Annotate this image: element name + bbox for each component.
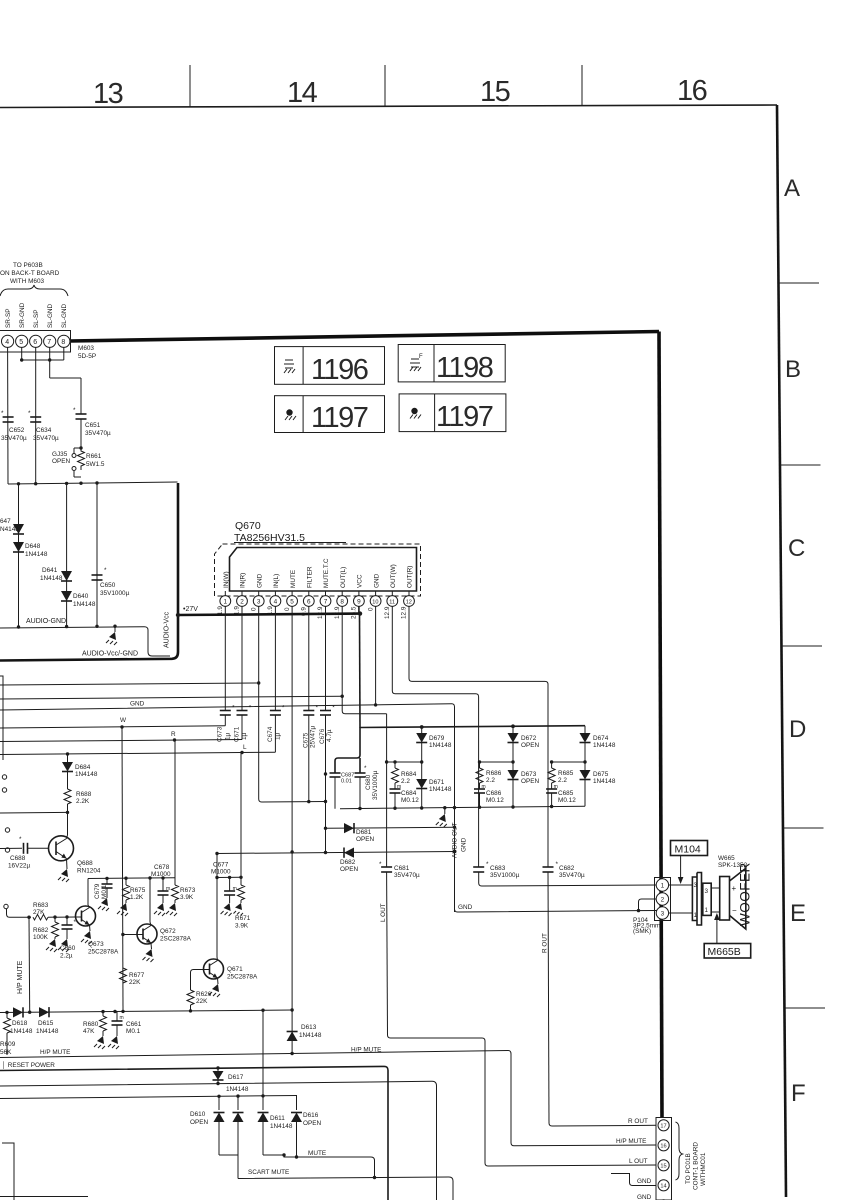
svg-text:3: 3 xyxy=(705,888,709,895)
resistor R680 47K xyxy=(102,1012,104,1016)
connector M603 pin 4 xyxy=(2,335,14,347)
capacitor C651 xyxy=(76,413,87,415)
pin 3 xyxy=(258,591,260,596)
svg-text:C634: C634 xyxy=(36,427,52,434)
resistor R683 27K xyxy=(33,914,48,920)
svg-text:H/P MUTE: H/P MUTE xyxy=(17,960,24,994)
grid tick right D/E xyxy=(783,827,824,829)
wire GND audio out to P104 pin3 xyxy=(455,909,658,912)
svg-text:12.9: 12.9 xyxy=(317,606,324,619)
svg-text:C671: C671 xyxy=(234,726,241,742)
svg-text:GND: GND xyxy=(461,837,468,852)
svg-text:m: m xyxy=(166,886,170,892)
svg-text:1N4148: 1N4148 xyxy=(299,1032,322,1039)
svg-text:35V470µ: 35V470µ xyxy=(394,872,420,879)
svg-text:TO P603B: TO P603B xyxy=(13,262,43,269)
pin voltage labels (rotated) xyxy=(217,606,408,619)
svg-text:R609: R609 xyxy=(0,1041,16,1048)
svg-text:D610: D610 xyxy=(190,1111,206,1118)
diode D672 OPEN xyxy=(512,726,514,733)
connector pin 14 xyxy=(658,1180,669,1191)
box 1197 (left) xyxy=(275,396,385,434)
svg-text:27K: 27K xyxy=(33,909,45,916)
svg-text:0: 0 xyxy=(367,607,374,611)
svg-text:7: 7 xyxy=(324,599,328,606)
wire H/P MUTE bus xyxy=(0,1051,508,1058)
box 1196 xyxy=(275,347,385,386)
chassis ground on rail xyxy=(444,808,446,814)
svg-text:B: B xyxy=(785,356,801,383)
diode D673 OPEN xyxy=(508,770,519,780)
transistor Q672 2SC2878A xyxy=(123,934,138,936)
svg-text:OUT(R): OUT(R) xyxy=(407,566,414,588)
pin 9 xyxy=(358,591,360,596)
wire mute column x=263 down to diode row xyxy=(262,1010,264,1110)
svg-text:1197: 1197 xyxy=(436,401,493,433)
diode D675 1N4148 xyxy=(580,770,591,780)
svg-text:R680: R680 xyxy=(83,1021,99,1028)
left box edge vertical xyxy=(0,676,3,760)
svg-text:647: 647 xyxy=(0,518,11,525)
svg-text:A: A xyxy=(784,175,800,202)
resistor R673 3.9K xyxy=(174,740,176,885)
svg-text:C683: C683 xyxy=(490,865,506,872)
svg-text:L: L xyxy=(243,744,247,751)
svg-text:3: 3 xyxy=(694,882,698,889)
board outline right thick line xyxy=(659,332,662,1119)
svg-text:1N4148: 1N4148 xyxy=(270,1123,293,1130)
svg-text:Q671: Q671 xyxy=(227,966,243,973)
svg-text:8: 8 xyxy=(61,339,65,346)
svg-text:C674: C674 xyxy=(267,726,274,742)
wire pin3 GND down then right xyxy=(259,606,326,802)
grid tick top 14/15 xyxy=(384,65,386,106)
svg-text:Q672: Q672 xyxy=(160,928,176,935)
svg-text:WOOFER: WOOFER xyxy=(738,862,753,926)
wire diode bottom rail segB xyxy=(263,1154,284,1156)
svg-text:SCART MUTE: SCART MUTE xyxy=(248,1169,289,1176)
transistor Q671 2SC2878A xyxy=(204,959,224,979)
svg-text:│ RESET POWER: │ RESET POWER xyxy=(2,1061,55,1069)
svg-text:D617: D617 xyxy=(228,1074,244,1081)
label M104 box xyxy=(671,841,708,856)
svg-text:D616: D616 xyxy=(303,1112,319,1119)
svg-text:1: 1 xyxy=(661,883,665,890)
resistor R671 3.9K xyxy=(240,753,242,886)
svg-text:IN(L): IN(L) xyxy=(273,574,280,588)
wire L OUT staircase to pin 15 xyxy=(388,1035,658,1166)
svg-text:D641: D641 xyxy=(42,567,58,574)
wire pin7 with capacitor C676 xyxy=(325,606,327,710)
connector brace xyxy=(676,1122,683,1180)
chassis ground symbol on AUDIO-GND xyxy=(114,626,116,632)
wire bus down at x=66.6 xyxy=(66,483,68,627)
Q671 emitter ground xyxy=(217,978,220,984)
svg-text:•27V: •27V xyxy=(183,606,198,613)
svg-text:C673: C673 xyxy=(217,726,224,742)
svg-text:R682: R682 xyxy=(33,927,49,934)
svg-text:OPEN: OPEN xyxy=(340,866,358,873)
wire pin6 with capacitor C675 xyxy=(308,606,310,710)
svg-text:4: 4 xyxy=(5,339,9,346)
svg-text:1: 1 xyxy=(224,599,228,606)
svg-text:GND: GND xyxy=(637,1194,652,1200)
svg-text:M1000: M1000 xyxy=(211,869,231,876)
svg-text:GND: GND xyxy=(458,904,473,911)
svg-text:MUTE.T.C: MUTE.T.C xyxy=(323,558,330,588)
svg-text:1N4148: 1N4148 xyxy=(73,601,96,608)
IC pin circles 1-12 xyxy=(220,591,414,606)
svg-text:35V1000µ: 35V1000µ xyxy=(490,872,520,879)
speaker plug inner xyxy=(703,883,711,915)
bus line y=483 xyxy=(8,482,178,484)
pin 5 xyxy=(291,591,293,596)
diode D641 1N4148 xyxy=(61,571,72,581)
wire pin3 to speaker connector xyxy=(669,912,693,914)
wire AUDIO-GND line xyxy=(0,627,170,656)
svg-text:C: C xyxy=(788,535,805,562)
connector pin 17 xyxy=(658,1120,669,1131)
svg-text:M0.12: M0.12 xyxy=(401,797,419,804)
diode D671 1N4148 xyxy=(416,779,427,789)
svg-text:SL-GND: SL-GND xyxy=(47,303,54,328)
Q688 collector up / emitter down xyxy=(67,835,68,839)
svg-text:1µ: 1µ xyxy=(275,732,282,740)
svg-text:2.2: 2.2 xyxy=(401,778,410,785)
wire pin5 MUTE long down xyxy=(291,606,293,1054)
svg-text:D618: D618 xyxy=(12,1020,28,1027)
svg-text:D671: D671 xyxy=(429,779,445,786)
gnd bus joining pins 5,7,8 xyxy=(21,347,23,360)
svg-text:6: 6 xyxy=(307,599,311,606)
svg-text:IN(W): IN(W) xyxy=(223,571,230,588)
svg-text:CONT-1 BOARD: CONT-1 BOARD xyxy=(693,1142,700,1190)
svg-text:25.5: 25.5 xyxy=(351,606,358,619)
svg-text:M104: M104 xyxy=(675,844,701,856)
capacitor C661 M0.1 xyxy=(116,1011,118,1021)
svg-text:H/P MUTE: H/P MUTE xyxy=(616,1138,646,1145)
svg-text:GJ35: GJ35 xyxy=(52,451,68,458)
diode D616 OPEN xyxy=(296,1096,298,1110)
svg-text:1.9: 1.9 xyxy=(267,606,274,615)
svg-text:1µ: 1µ xyxy=(225,732,232,740)
resistor R688 2.2K xyxy=(67,772,69,790)
svg-text:1N4148: 1N4148 xyxy=(593,778,616,785)
wire H/P MUTE vertical xyxy=(28,917,31,1011)
svg-text:OUT(L): OUT(L) xyxy=(340,567,347,588)
right border line xyxy=(777,105,786,1197)
svg-text:SL-GND: SL-GND xyxy=(61,303,68,328)
svg-text:3.9K: 3.9K xyxy=(235,923,249,930)
chassis ground Q688 emitter xyxy=(61,869,68,877)
wire pin1 with capacitor C673 xyxy=(224,606,226,710)
connector pin 15 xyxy=(658,1160,669,1171)
svg-text:TO PC01B: TO PC01B xyxy=(685,1153,692,1184)
svg-text:M0.12: M0.12 xyxy=(486,797,504,804)
jumper GJ35 OPEN with resistor R661 5W1.5 xyxy=(79,446,82,449)
L group mid rail xyxy=(512,743,514,771)
svg-text:M0.1: M0.1 xyxy=(101,884,108,899)
svg-text:35V470µ: 35V470µ xyxy=(1,435,27,442)
grid tick right B/C xyxy=(780,464,821,466)
Q671 base line + resistor R626 22K xyxy=(191,970,204,991)
svg-text:9: 9 xyxy=(357,599,361,606)
grid tick top 15/16 xyxy=(581,65,583,106)
svg-text:WITHMC01: WITHMC01 xyxy=(700,1152,707,1186)
svg-text:C685: C685 xyxy=(558,790,574,797)
pin 1 xyxy=(224,591,226,596)
capacitor C634 xyxy=(30,416,41,418)
wire gnd bus down to C651 column xyxy=(49,360,51,378)
capacitor C687 0.01 xyxy=(330,772,341,774)
wire bus down at x=18.5 xyxy=(18,484,20,627)
W group mid rail xyxy=(421,743,423,780)
svg-text:17: 17 xyxy=(660,1124,666,1130)
svg-text:FILTER: FILTER xyxy=(307,566,314,588)
svg-text:R: R xyxy=(171,731,176,738)
svg-text:C684: C684 xyxy=(401,790,417,797)
wire pin10 GND down xyxy=(375,606,377,705)
wires plug to speaker xyxy=(711,887,720,889)
svg-text:C652: C652 xyxy=(9,427,25,434)
wire y=683 to pin3 xyxy=(0,683,259,685)
svg-text:R671: R671 xyxy=(235,915,251,922)
wire pin6 down (SL-SP) xyxy=(35,347,37,483)
wire P104 pin2 jog to GND xyxy=(639,899,657,911)
svg-text:Q670: Q670 xyxy=(235,520,261,532)
svg-text:0: 0 xyxy=(284,607,291,611)
svg-text:IN(R): IN(R) xyxy=(240,573,247,588)
wire bus y=1083 xyxy=(0,1081,437,1200)
svg-text:13: 13 xyxy=(93,78,123,110)
svg-text:AUDIO-Vcc: AUDIO-Vcc xyxy=(164,611,171,648)
svg-text:D640: D640 xyxy=(73,593,89,600)
wire VCC column down xyxy=(359,614,362,728)
svg-text:OPEN: OPEN xyxy=(521,742,539,749)
svg-text:1196: 1196 xyxy=(311,354,368,386)
svg-text:1.2K: 1.2K xyxy=(130,894,144,901)
svg-text:D673: D673 xyxy=(521,771,537,778)
svg-text:AUDIO-GND: AUDIO-GND xyxy=(26,618,66,625)
wire C688 line xyxy=(0,847,22,849)
svg-text:5W1.5: 5W1.5 xyxy=(86,461,105,468)
connector M603 pin 5 xyxy=(16,335,28,347)
connector M603 pin 8 xyxy=(58,335,70,347)
Q671 collector up to mute line B xyxy=(216,957,219,961)
svg-text:R626: R626 xyxy=(196,991,212,998)
diode D618 1N4148 xyxy=(13,1007,23,1017)
diode D613 1N4148 xyxy=(287,1032,298,1042)
wire pin12 OUT(R) down/right xyxy=(409,606,548,867)
svg-text:R OUT: R OUT xyxy=(628,1118,648,1125)
svg-text:35V470µ: 35V470µ xyxy=(33,435,59,442)
wire C683 to P104 pin1 xyxy=(479,872,658,886)
svg-text:2.2µ: 2.2µ xyxy=(60,953,73,960)
svg-text:C650: C650 xyxy=(100,582,116,589)
resistor R675 1.2K xyxy=(125,878,127,885)
capacitor C682 35V470u (R coupling) xyxy=(543,866,554,868)
diode D610 OPEN xyxy=(218,1096,220,1110)
wire pin4 with capacitor C674 xyxy=(274,606,276,710)
svg-text:R686: R686 xyxy=(486,770,502,777)
wire SCART MUTE line xyxy=(238,1177,453,1200)
resistor R684 2.2 xyxy=(394,762,396,768)
svg-text:12.9: 12.9 xyxy=(401,606,408,619)
svg-text:OPEN: OPEN xyxy=(356,836,374,843)
wire R y=739 xyxy=(0,740,242,742)
svg-text:m: m xyxy=(233,886,237,892)
svg-text:1N4148: 1N4148 xyxy=(40,575,63,582)
svg-text:C676: C676 xyxy=(319,728,326,744)
svg-text:8: 8 xyxy=(340,599,344,606)
connector P104 body xyxy=(655,878,671,921)
diode D617 1N4148 (between buses) xyxy=(217,1068,219,1084)
svg-text:10: 10 xyxy=(372,599,378,605)
grid tick right C/D xyxy=(782,645,823,647)
diode D611 1N4148 xyxy=(262,1109,264,1111)
diode D648 1N4148 xyxy=(13,542,24,552)
wire pin4 down (SR-SP) xyxy=(7,347,9,484)
svg-text:C681: C681 xyxy=(394,865,410,872)
svg-text:R661: R661 xyxy=(86,453,102,460)
svg-text:1.9: 1.9 xyxy=(217,606,224,615)
svg-text:1N4148: 1N4148 xyxy=(10,1028,33,1035)
svg-text:GND: GND xyxy=(130,701,145,708)
capacitor C685 M0.12 xyxy=(551,783,553,789)
svg-text:C677: C677 xyxy=(213,862,229,869)
svg-text:25C2878A: 25C2878A xyxy=(227,974,258,981)
VCC rail xyxy=(360,726,585,728)
svg-text:C651: C651 xyxy=(85,422,101,429)
svg-text:15: 15 xyxy=(660,1164,666,1170)
svg-text:H/P MUTE: H/P MUTE xyxy=(351,1047,381,1054)
wire mute rail xyxy=(0,1010,292,1013)
resistor R609 56K xyxy=(6,1012,8,1018)
svg-text:1N4148: 1N4148 xyxy=(226,1086,249,1093)
capacitor C680 35V1000u on VCC xyxy=(355,772,366,774)
capacitor C684 M0.12 xyxy=(394,783,396,789)
svg-text:M0.1: M0.1 xyxy=(126,1028,141,1035)
svg-text:12.9: 12.9 xyxy=(384,606,391,619)
wire y=812 from left xyxy=(0,811,68,814)
svg-text:M0.12: M0.12 xyxy=(558,797,576,804)
svg-text:OUT(W): OUT(W) xyxy=(390,564,397,588)
svg-text:1µ: 1µ xyxy=(241,732,248,740)
svg-text:D674: D674 xyxy=(593,735,609,742)
wire R OUT down xyxy=(548,872,549,1123)
svg-text:12.9: 12.9 xyxy=(334,606,341,619)
svg-text:−: − xyxy=(732,906,737,915)
svg-text:1N4148: 1N4148 xyxy=(593,742,616,749)
wire y=697 to pin8 column xyxy=(0,696,342,699)
svg-text:RN1204: RN1204 xyxy=(77,868,101,875)
wire D681 line y=828 xyxy=(326,827,455,828)
wire L OUT down xyxy=(386,872,389,1035)
wire pin9 VCC up to +27V xyxy=(358,606,360,613)
bottom connector body xyxy=(656,1118,672,1200)
svg-text:E: E xyxy=(790,900,806,927)
svg-text:MUTE: MUTE xyxy=(308,1150,326,1157)
wire pin2 with capacitor C671 xyxy=(241,606,243,710)
box 1197 (right) xyxy=(399,394,506,433)
pin 8 xyxy=(341,591,343,596)
svg-text:N4148: N4148 xyxy=(0,526,19,533)
svg-text:R675: R675 xyxy=(130,887,146,894)
svg-text:C661: C661 xyxy=(126,1021,142,1028)
svg-text:35V1000µ: 35V1000µ xyxy=(100,590,130,597)
label M665B box xyxy=(704,944,751,959)
svg-text:5: 5 xyxy=(290,599,294,606)
svg-text:14: 14 xyxy=(660,1184,666,1190)
wire diode bottom rail segA xyxy=(219,1154,238,1156)
svg-text:7: 7 xyxy=(47,339,51,346)
svg-text:OPEN: OPEN xyxy=(303,1120,321,1127)
capacitor C652 xyxy=(3,416,14,418)
P104 pin 1 xyxy=(656,879,668,891)
wire from L line down xyxy=(67,754,69,762)
resistor R661 xyxy=(78,448,85,470)
wire filter row segment 1 xyxy=(88,877,175,880)
svg-text:OPEN: OPEN xyxy=(52,458,70,465)
svg-text:0: 0 xyxy=(250,607,257,611)
svg-text:1N4148: 1N4148 xyxy=(75,771,98,778)
svg-text:D648: D648 xyxy=(25,543,41,550)
svg-text:L OUT: L OUT xyxy=(629,1158,648,1165)
svg-text:M665B: M665B xyxy=(708,946,741,958)
svg-text:F: F xyxy=(419,354,423,360)
svg-text:35V470µ: 35V470µ xyxy=(559,872,585,879)
svg-text:1.9: 1.9 xyxy=(234,606,241,615)
svg-text:3.9K: 3.9K xyxy=(180,894,194,901)
IC dashed outline xyxy=(215,544,421,596)
diode D640 1N4148 xyxy=(61,591,72,601)
svg-text:C682: C682 xyxy=(559,865,575,872)
resistor R685 2.2 xyxy=(551,762,553,768)
pin 11 xyxy=(391,591,393,596)
svg-text:6: 6 xyxy=(33,339,37,346)
wire filter row segment 2 xyxy=(217,876,241,878)
svg-text:L OUT: L OUT xyxy=(380,903,387,922)
diode D674 1N4148 xyxy=(584,726,586,733)
wire RESET POWER bus xyxy=(0,1066,388,1200)
wire H/P MUTE to pin 16 xyxy=(508,1050,658,1145)
resistor R682 100K xyxy=(54,917,56,922)
wire GND stub to pin 14 xyxy=(611,1174,658,1186)
connector M603 pin 7 xyxy=(44,335,56,347)
svg-text:C688: C688 xyxy=(10,855,26,862)
GND rail under networks xyxy=(340,806,585,808)
svg-text:D679: D679 xyxy=(429,735,445,742)
wire bus y=1096 (scart diode rail) xyxy=(0,1096,297,1099)
connector M603 pin 6 xyxy=(30,335,42,347)
diode D681 OPEN xyxy=(344,823,354,833)
svg-text:R685: R685 xyxy=(558,770,574,777)
svg-text:D675: D675 xyxy=(593,771,609,778)
headphone jack contacts (cropped at left edge) xyxy=(2,775,6,779)
svg-text:2: 2 xyxy=(661,897,665,904)
bottom-left partial border line xyxy=(0,1196,88,1198)
svg-text:2.2K: 2.2K xyxy=(76,798,90,805)
svg-text:25C2878A: 25C2878A xyxy=(88,949,119,956)
wire R OUT to pin 17 xyxy=(549,1123,658,1126)
svg-text:D615: D615 xyxy=(38,1020,54,1027)
speaker cone xyxy=(730,868,746,929)
svg-text:D672: D672 xyxy=(521,735,537,742)
svg-text:2: 2 xyxy=(240,599,244,606)
svg-text:D682: D682 xyxy=(340,859,356,866)
svg-text:W665: W665 xyxy=(718,855,735,862)
transistor Q673 2SC2878A xyxy=(76,906,96,926)
